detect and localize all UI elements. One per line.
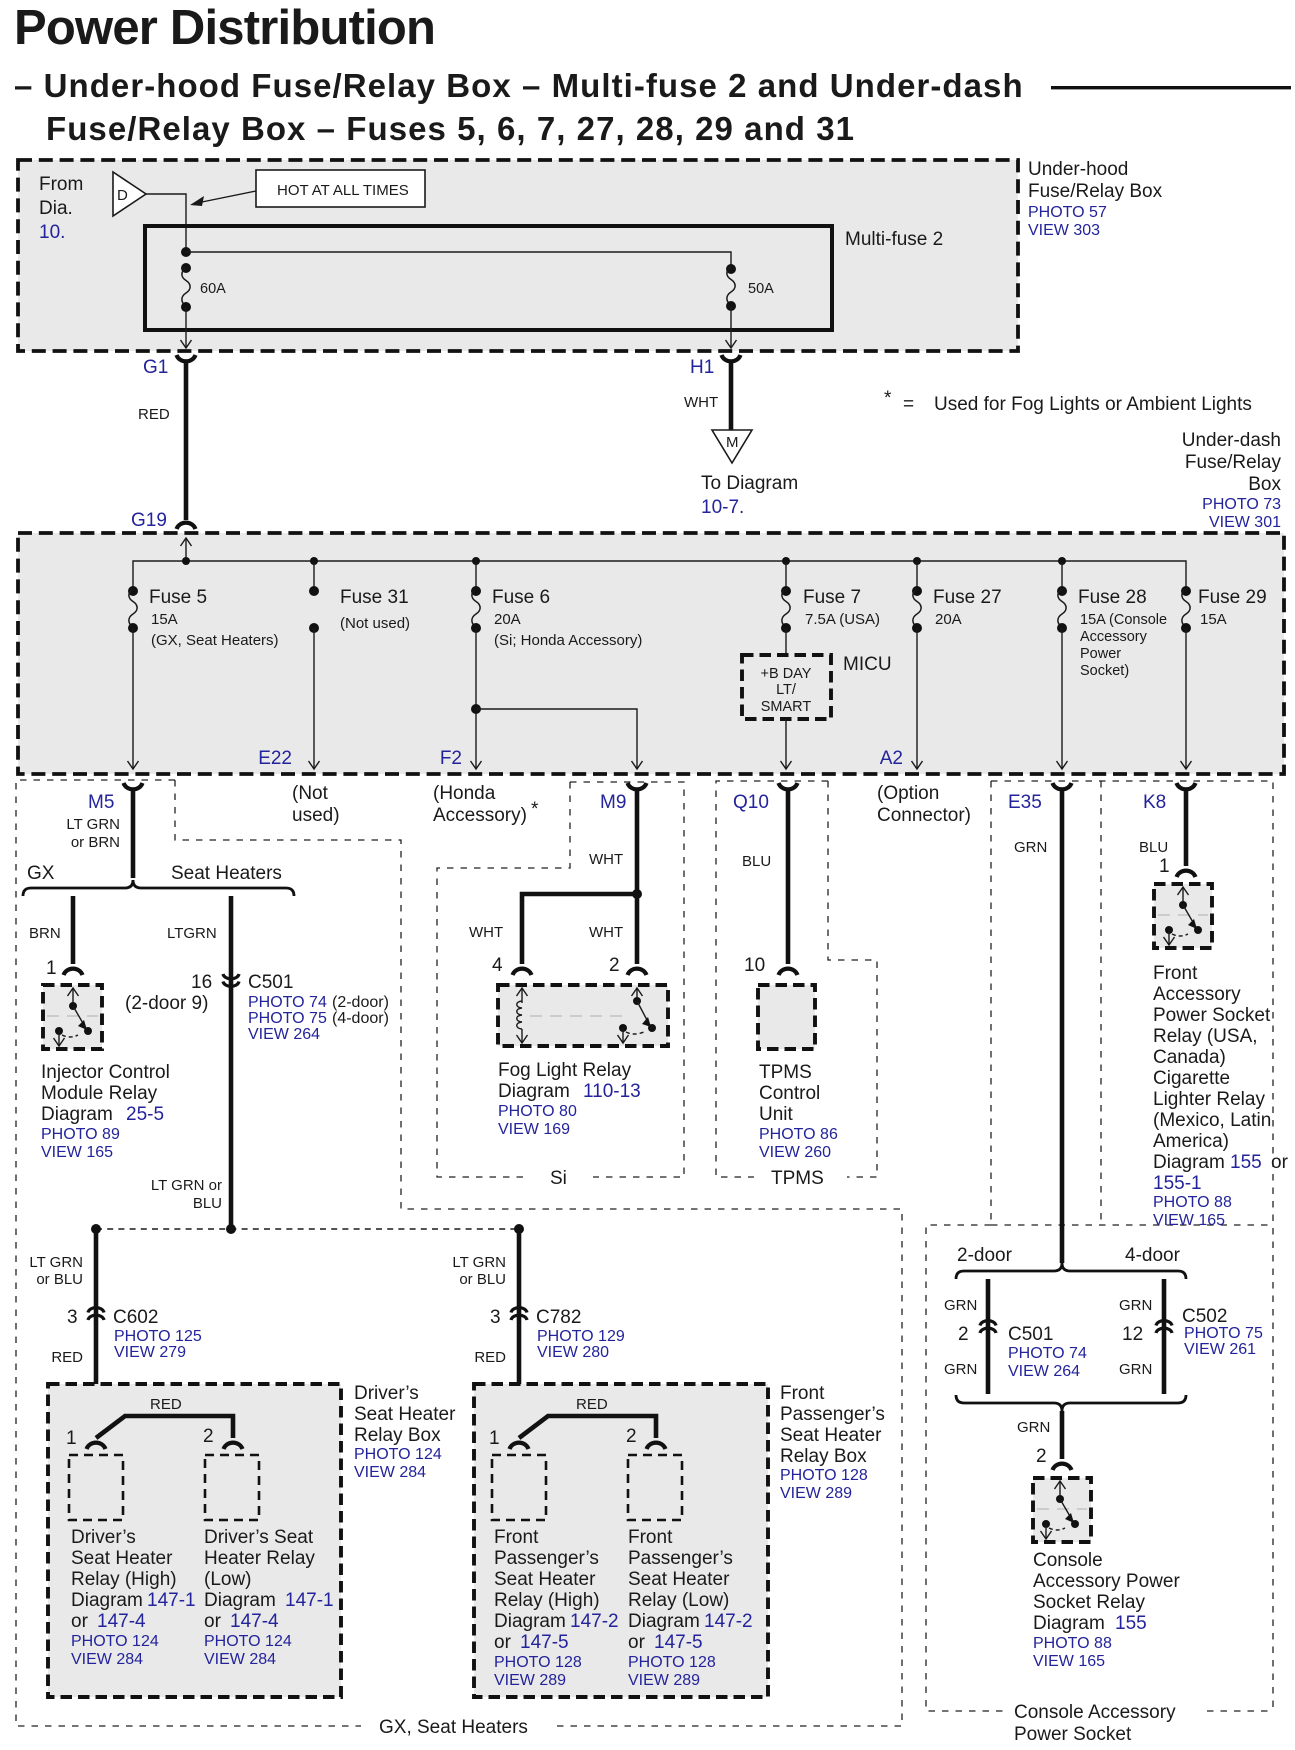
svg-text:Driver’s Seat: Driver’s Seat	[204, 1527, 314, 1548]
svg-text:Fuse 27: Fuse 27	[933, 587, 1002, 608]
svg-text:– Under-hood Fuse/Relay Box –: – Under-hood Fuse/Relay Box – Multi-fuse…	[14, 67, 1024, 104]
wire fuse 6 drop	[475, 561, 477, 589]
svg-text:Unit: Unit	[759, 1104, 794, 1125]
wire BLU from K8	[1139, 789, 1186, 866]
from diagram 10 label	[39, 174, 83, 243]
svg-text:155: 155	[1230, 1152, 1262, 1173]
wire LT GRN or BLU to C782	[452, 1229, 519, 1440]
svg-text:1: 1	[489, 1428, 500, 1449]
svg-text:Passenger’s: Passenger’s	[780, 1404, 885, 1425]
GX Seat Heaters region boundary	[16, 780, 902, 1726]
svg-text:Console: Console	[1033, 1550, 1103, 1571]
svg-text:PHOTO 74: PHOTO 74	[248, 994, 327, 1011]
fuse 60A	[181, 263, 226, 312]
svg-text:10-7.: 10-7.	[701, 497, 744, 518]
svg-text:E35: E35	[1008, 792, 1042, 813]
wire fuse 27 drop	[916, 561, 918, 589]
svg-text:WHT: WHT	[589, 924, 623, 941]
2-door label	[957, 1245, 1013, 1266]
svg-text:Box: Box	[1248, 474, 1281, 495]
svg-text:2: 2	[203, 1426, 214, 1447]
GX Seat Heaters region label	[379, 1717, 528, 1738]
svg-text:1: 1	[66, 1428, 77, 1449]
wire fuse 31 to E22	[309, 628, 320, 769]
node fuse 6 bus	[472, 557, 480, 565]
svg-text:Passenger’s: Passenger’s	[494, 1548, 599, 1569]
svg-text:VIEW 301: VIEW 301	[1209, 514, 1281, 531]
svg-text:RED: RED	[150, 1396, 182, 1413]
svg-text:1: 1	[1159, 856, 1170, 877]
connector M5	[88, 783, 143, 813]
wire G19 into bus	[181, 538, 192, 561]
connector Q10	[733, 783, 798, 813]
svg-text:VIEW 284: VIEW 284	[71, 1651, 143, 1668]
svg-text:M5: M5	[88, 792, 114, 813]
svg-text:Under-dash: Under-dash	[1182, 430, 1281, 451]
svg-text:VIEW 261: VIEW 261	[1184, 1341, 1256, 1358]
svg-text:G1: G1	[143, 357, 168, 378]
svg-text:LT/: LT/	[776, 682, 797, 698]
wire RED jumper pins 1-2	[96, 1396, 233, 1438]
svg-text:Driver’s: Driver’s	[354, 1383, 419, 1404]
pin 2 front passenger's relay low	[626, 1426, 666, 1449]
svg-text:147-4: 147-4	[97, 1611, 146, 1632]
wire fuse 28 to E35	[1057, 628, 1068, 769]
svg-text:Relay Box: Relay Box	[354, 1425, 441, 1446]
svg-text:Fuse/Relay Box – Fuses 5, 6, 7: Fuse/Relay Box – Fuses 5, 6, 7, 27, 28, …	[46, 110, 855, 147]
svg-text:(2-door): (2-door)	[332, 994, 389, 1011]
svg-text:7.5A (USA): 7.5A (USA)	[805, 611, 880, 628]
svg-text:LT GRN or: LT GRN or	[151, 1177, 222, 1194]
svg-text:Socket Relay: Socket Relay	[1033, 1592, 1145, 1613]
svg-text:25-5: 25-5	[126, 1104, 164, 1125]
svg-text:Power Distribution: Power Distribution	[14, 1, 435, 55]
title Power Distribution	[14, 1, 435, 55]
svg-text:Q10: Q10	[733, 792, 769, 813]
svg-text:10: 10	[744, 955, 765, 976]
svg-text:BLU: BLU	[742, 853, 771, 870]
svg-text:VIEW 169: VIEW 169	[498, 1121, 570, 1138]
svg-text:155: 155	[1115, 1613, 1147, 1634]
wire MICU to Q10	[781, 719, 792, 769]
E35 region boundary	[990, 781, 992, 1225]
node junction at top of 60A fuse	[181, 247, 191, 257]
svg-text:Fuse 29: Fuse 29	[1198, 587, 1267, 608]
svg-text:BLU: BLU	[1139, 839, 1168, 856]
svg-text:K8: K8	[1143, 792, 1166, 813]
svg-text:4: 4	[492, 955, 503, 976]
driver's seat heater relay box caption	[354, 1383, 456, 1481]
svg-text:GRN: GRN	[1119, 1297, 1152, 1314]
svg-text:147-2: 147-2	[704, 1611, 753, 1632]
svg-text:WHT: WHT	[469, 924, 503, 941]
svg-text:G19: G19	[131, 510, 167, 531]
injector control module relay label	[41, 1062, 170, 1161]
connector M9	[600, 783, 647, 813]
svg-text:Dia.: Dia.	[39, 198, 73, 219]
svg-text:Power: Power	[1080, 646, 1121, 662]
pin 2 fog light relay	[609, 955, 647, 976]
relay injector control module	[43, 985, 102, 1049]
svg-text:Fuse 7: Fuse 7	[803, 587, 861, 608]
svg-text:LTGRN: LTGRN	[167, 925, 217, 942]
svg-text:GX, Seat Heaters: GX, Seat Heaters	[379, 1717, 528, 1738]
node fuse 31 bus	[310, 557, 318, 565]
under-dash box caption	[1182, 430, 1282, 531]
fuse 31 (not used)	[309, 586, 410, 633]
svg-text:147-4: 147-4	[230, 1611, 279, 1632]
svg-text:2: 2	[626, 1426, 637, 1447]
svg-text:GRN: GRN	[1014, 839, 1047, 856]
svg-text:(2-door 9): (2-door 9)	[125, 993, 208, 1014]
under-dash fuse/relay box outline	[18, 533, 1284, 774]
svg-text:Fog Light Relay: Fog Light Relay	[498, 1060, 632, 1081]
svg-text:VIEW 303: VIEW 303	[1028, 222, 1100, 239]
svg-text:Relay (High): Relay (High)	[71, 1569, 177, 1590]
svg-text:PHOTO 75: PHOTO 75	[1184, 1325, 1263, 1342]
pin 4 fog light relay	[492, 955, 532, 976]
relay driver's seat heater high	[69, 1455, 123, 1520]
svg-text:(Si; Honda Accessory): (Si; Honda Accessory)	[494, 632, 642, 649]
wire RED G1 to G19	[138, 361, 186, 520]
wire from triangle D to fuse column	[146, 194, 186, 248]
svg-text:VIEW 165: VIEW 165	[1033, 1653, 1105, 1670]
svg-text:VIEW 280: VIEW 280	[537, 1344, 609, 1361]
subtitle rule right	[1051, 86, 1291, 89]
svg-text:Front: Front	[628, 1527, 673, 1548]
wire fuse 28 drop	[1061, 561, 1063, 589]
svg-text:Fuse 31: Fuse 31	[340, 587, 409, 608]
HOT AT ALL TIMES callout box	[256, 170, 425, 207]
svg-text:Heater Relay: Heater Relay	[204, 1548, 315, 1569]
not used region boundary	[292, 783, 340, 826]
svg-text:M9: M9	[600, 792, 626, 813]
relay console accessory power socket	[1033, 1478, 1091, 1542]
wire BRN to injector relay	[29, 896, 83, 979]
svg-text:Diagram: Diagram	[41, 1104, 113, 1125]
triangle source symbol D	[113, 172, 146, 216]
wire WHT to pin 2	[589, 894, 637, 964]
svg-text:or: or	[1271, 1152, 1289, 1173]
svg-text:Console Accessory: Console Accessory	[1014, 1702, 1176, 1723]
wire GRN to console relay	[1017, 1411, 1062, 1459]
wire 50A fuse down to box edge	[726, 306, 737, 348]
svg-text:or BRN: or BRN	[71, 834, 120, 851]
to diagram 10-7 label	[701, 473, 798, 518]
front passenger's seat heater relay box caption	[780, 1383, 885, 1502]
svg-text:(Honda: (Honda	[433, 783, 496, 804]
connector G19	[131, 510, 196, 531]
svg-text:Canada): Canada)	[1153, 1047, 1226, 1068]
front passenger relay high label	[494, 1527, 619, 1689]
svg-text:C502: C502	[1182, 1306, 1227, 1327]
wire branch to 50A fuse	[186, 252, 731, 269]
node fuse 7 bus	[782, 557, 790, 565]
svg-text:or: or	[204, 1611, 222, 1632]
fuse 5	[128, 586, 279, 649]
connector G1	[143, 355, 196, 378]
svg-text:or BLU: or BLU	[459, 1271, 506, 1288]
svg-text:BRN: BRN	[29, 925, 61, 942]
svg-text:Under-hood: Under-hood	[1028, 159, 1128, 180]
wire LT GRN or BRN from M5	[66, 789, 133, 878]
svg-text:10.: 10.	[39, 222, 65, 243]
svg-text:RED: RED	[474, 1349, 506, 1366]
svg-text:Fuse/Relay: Fuse/Relay	[1185, 452, 1282, 473]
driver's seat heater relay low label	[204, 1527, 334, 1668]
connector H1	[690, 355, 741, 378]
svg-text:(4-door): (4-door)	[332, 1010, 389, 1027]
svg-text:Socket): Socket)	[1080, 663, 1129, 679]
triangle destination symbol M	[712, 430, 752, 463]
svg-text:Power Socket: Power Socket	[1014, 1724, 1132, 1745]
svg-text:Power Socket: Power Socket	[1153, 1005, 1271, 1026]
svg-text:Seat Heater: Seat Heater	[780, 1425, 882, 1446]
svg-text:Front: Front	[494, 1527, 539, 1548]
svg-text:WHT: WHT	[684, 394, 718, 411]
fuse 6	[471, 586, 642, 649]
svg-text:4-door: 4-door	[1125, 1245, 1181, 1266]
subtitle line 2	[46, 110, 855, 147]
footnote asterisk	[884, 388, 1252, 415]
svg-text:Seat Heater: Seat Heater	[628, 1569, 730, 1590]
svg-text:60A: 60A	[200, 281, 226, 297]
svg-text:PHOTO 80: PHOTO 80	[498, 1103, 577, 1120]
svg-text:VIEW 284: VIEW 284	[354, 1464, 426, 1481]
svg-text:Accessory: Accessory	[1080, 629, 1148, 645]
svg-text:PHOTO 88: PHOTO 88	[1033, 1635, 1112, 1652]
svg-text:(Option: (Option	[877, 783, 939, 804]
svg-text:PHOTO 124: PHOTO 124	[71, 1633, 159, 1650]
split brace GX / Seat Heaters	[23, 880, 294, 896]
dashed option wire	[91, 1224, 524, 1234]
fuse 27	[912, 586, 1002, 633]
svg-text:Diagram: Diagram	[1033, 1613, 1105, 1634]
svg-text:Control: Control	[759, 1083, 820, 1104]
svg-text:VIEW 279: VIEW 279	[114, 1344, 186, 1361]
svg-text:GRN: GRN	[1119, 1361, 1152, 1378]
honda accessory label	[433, 783, 539, 826]
svg-text:20A: 20A	[494, 611, 521, 628]
subtitle line 1	[14, 67, 1024, 104]
wire fuse 7 drop	[785, 561, 787, 589]
svg-text:PHOTO 124: PHOTO 124	[354, 1446, 442, 1463]
console accessory power socket relay label	[1033, 1550, 1180, 1670]
svg-text:RED: RED	[51, 1349, 83, 1366]
svg-text:Accessory): Accessory)	[433, 805, 527, 826]
svg-text:Injector Control: Injector Control	[41, 1062, 170, 1083]
TPMS control unit box	[758, 985, 815, 1049]
svg-text:Seat Heater: Seat Heater	[71, 1548, 173, 1569]
svg-text:(Not used): (Not used)	[340, 615, 410, 632]
svg-text:TPMS: TPMS	[759, 1062, 812, 1083]
Seat Heaters label	[171, 863, 282, 884]
pin 1 driver's seat heater relay high	[66, 1428, 106, 1449]
svg-text:16: 16	[191, 972, 212, 993]
svg-text:Cigarette: Cigarette	[1153, 1068, 1230, 1089]
svg-text:PHOTO 86: PHOTO 86	[759, 1126, 838, 1143]
svg-text:VIEW 284: VIEW 284	[204, 1651, 276, 1668]
svg-text:=: =	[903, 394, 914, 415]
merge brace to console relay	[956, 1395, 1186, 1411]
svg-text:VIEW 165: VIEW 165	[1153, 1212, 1225, 1229]
wire WHT H1 down	[684, 361, 731, 430]
svg-text:PHOTO 89: PHOTO 89	[41, 1126, 120, 1143]
front accessory power socket relay label	[1153, 963, 1289, 1229]
svg-text:or BLU: or BLU	[36, 1271, 83, 1288]
fog light relay label	[498, 1060, 641, 1138]
pin 10 TPMS control unit	[744, 955, 798, 976]
4-door label	[1125, 1245, 1181, 1266]
wire RED jumper pins 1-2	[519, 1396, 656, 1438]
option connector label	[877, 783, 971, 826]
svg-text:PHOTO 128: PHOTO 128	[780, 1467, 868, 1484]
svg-text:Seat Heater: Seat Heater	[494, 1569, 596, 1590]
svg-text:To Diagram: To Diagram	[701, 473, 798, 494]
wire WHT from M9	[589, 789, 637, 894]
svg-text:Diagram: Diagram	[204, 1590, 276, 1611]
svg-text:Seat Heaters: Seat Heaters	[171, 863, 282, 884]
svg-text:Fuse 5: Fuse 5	[149, 587, 207, 608]
wire branch to M9	[476, 709, 643, 769]
svg-text:12: 12	[1122, 1324, 1143, 1345]
wire GRN from E35	[1014, 789, 1062, 1263]
wire label LT GRN or BLU	[151, 1177, 222, 1212]
connector C501 pin 2	[958, 1321, 1087, 1380]
wire GRN 4-door to C502	[1119, 1279, 1164, 1394]
svg-text:BLU: BLU	[193, 1195, 222, 1212]
svg-text:F2: F2	[440, 748, 462, 769]
relay front passenger high	[492, 1455, 546, 1520]
svg-text:From: From	[39, 174, 83, 195]
fuse 50A	[726, 264, 774, 311]
wire fuse 31 drop	[313, 561, 315, 589]
svg-text:C602: C602	[113, 1307, 158, 1328]
svg-text:Fuse 28: Fuse 28	[1078, 587, 1147, 608]
node branch fuse 6	[471, 704, 481, 714]
svg-text:15A: 15A	[1200, 611, 1227, 628]
wire LT GRN or BLU to C602	[29, 1229, 96, 1440]
node fuse 27 bus	[913, 557, 921, 565]
svg-text:VIEW 289: VIEW 289	[628, 1672, 700, 1689]
svg-text:LT GRN: LT GRN	[29, 1254, 83, 1271]
svg-text:PHOTO 124: PHOTO 124	[204, 1633, 292, 1650]
svg-text:3: 3	[490, 1307, 501, 1328]
svg-text:15A (Console: 15A (Console	[1080, 612, 1167, 628]
svg-text:H1: H1	[690, 357, 714, 378]
wire WHT to pin 4	[469, 894, 637, 964]
svg-text:PHOTO 128: PHOTO 128	[628, 1654, 716, 1671]
connector E35	[1008, 783, 1072, 813]
svg-text:147-5: 147-5	[654, 1632, 703, 1653]
svg-text:PHOTO 57: PHOTO 57	[1028, 204, 1107, 221]
svg-text:147-1: 147-1	[285, 1590, 334, 1611]
svg-text:Accessory Power: Accessory Power	[1033, 1571, 1180, 1592]
svg-text:GRN: GRN	[944, 1361, 977, 1378]
fuse 29	[1181, 586, 1267, 633]
svg-text:Relay (High): Relay (High)	[494, 1590, 600, 1611]
connector C782 pin 3	[474, 1307, 625, 1366]
svg-text:Module Relay: Module Relay	[41, 1083, 158, 1104]
svg-text:RED: RED	[576, 1396, 608, 1413]
svg-text:(Low): (Low)	[204, 1569, 252, 1590]
svg-text:used): used)	[292, 805, 340, 826]
svg-text:LT GRN: LT GRN	[66, 816, 120, 833]
svg-text:D: D	[117, 187, 128, 204]
svg-text:VIEW 289: VIEW 289	[780, 1485, 852, 1502]
svg-text:2: 2	[609, 955, 620, 976]
svg-text:GX: GX	[27, 863, 55, 884]
svg-text:PHOTO 74: PHOTO 74	[1008, 1345, 1087, 1362]
wire LTGRN to C501	[167, 896, 231, 1229]
svg-text:20A: 20A	[935, 611, 962, 628]
svg-text:Diagram: Diagram	[498, 1081, 570, 1102]
front passenger's seat heater relay box outline	[474, 1384, 768, 1697]
svg-text:Seat Heater: Seat Heater	[354, 1404, 456, 1425]
svg-text:Diagram: Diagram	[628, 1611, 700, 1632]
svg-text:Driver’s: Driver’s	[71, 1527, 136, 1548]
svg-text:110-13: 110-13	[583, 1081, 641, 1102]
svg-text:Used for Fog Lights or Ambient: Used for Fog Lights or Ambient Lights	[934, 394, 1252, 415]
svg-text:America): America)	[1153, 1131, 1229, 1152]
fuse 28	[1057, 586, 1167, 679]
svg-text:C501: C501	[1008, 1324, 1053, 1345]
svg-text:PHOTO 75: PHOTO 75	[248, 1010, 327, 1027]
Si region boundary	[437, 782, 570, 1189]
node F2	[440, 748, 462, 769]
svg-text:VIEW 264: VIEW 264	[1008, 1363, 1080, 1380]
svg-text:Connector): Connector)	[877, 805, 971, 826]
svg-text:Relay (Low): Relay (Low)	[628, 1590, 729, 1611]
svg-text:Fuse/Relay Box: Fuse/Relay Box	[1028, 181, 1163, 202]
svg-text:Diagram: Diagram	[1153, 1152, 1225, 1173]
wire fuse 5 to M5	[128, 628, 139, 769]
svg-text:A2: A2	[880, 748, 903, 769]
under-hood box caption	[1028, 159, 1163, 239]
svg-text:LT GRN: LT GRN	[452, 1254, 506, 1271]
svg-text:WHT: WHT	[589, 851, 623, 868]
svg-text:147-2: 147-2	[570, 1611, 619, 1632]
MICU +B DAY LT/SMART box	[742, 654, 892, 719]
connector K8	[1143, 783, 1196, 813]
node E22	[258, 748, 292, 769]
svg-text:VIEW 289: VIEW 289	[494, 1672, 566, 1689]
driver's seat heater relay high label	[71, 1527, 196, 1668]
svg-text:Lighter Relay: Lighter Relay	[1153, 1089, 1265, 1110]
svg-text:or: or	[494, 1632, 512, 1653]
svg-text:Diagram: Diagram	[71, 1590, 143, 1611]
svg-text:VIEW 260: VIEW 260	[759, 1144, 831, 1161]
svg-text:50A: 50A	[748, 281, 774, 297]
svg-text:PHOTO 128: PHOTO 128	[494, 1654, 582, 1671]
relay front accessory power socket	[1154, 884, 1212, 948]
svg-text:Front: Front	[780, 1383, 825, 1404]
GX label	[27, 863, 55, 884]
connector C602 pin 3	[51, 1307, 202, 1366]
callout arrow to wire	[190, 191, 256, 206]
connector C501 pin 16	[125, 972, 389, 1043]
svg-text:GRN: GRN	[944, 1297, 977, 1314]
pin 1 front accessory power socket relay	[1159, 856, 1196, 877]
TPMS control unit label	[759, 1062, 838, 1161]
svg-text:VIEW 264: VIEW 264	[248, 1026, 320, 1043]
svg-text:2: 2	[958, 1324, 969, 1345]
svg-text:C782: C782	[536, 1307, 581, 1328]
node fog relay split	[632, 889, 642, 899]
svg-text:SMART: SMART	[761, 699, 812, 715]
svg-text:PHOTO 73: PHOTO 73	[1202, 496, 1281, 513]
node A2	[880, 748, 903, 769]
